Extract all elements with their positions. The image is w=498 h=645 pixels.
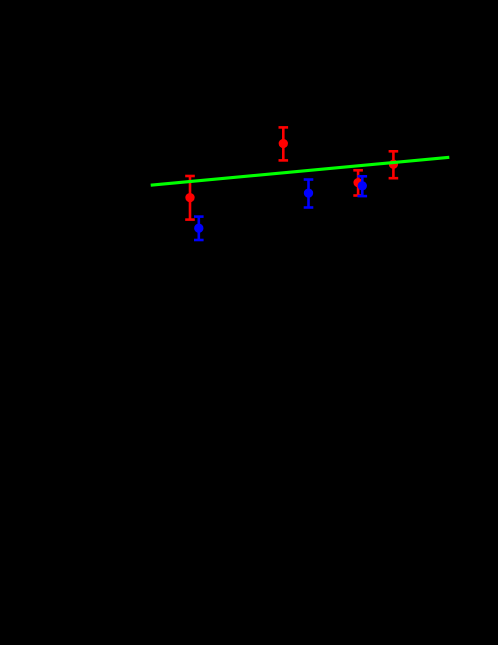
blue data point B1 error bar (194, 217, 204, 240)
red data point R4 error bar (389, 151, 399, 178)
blue data point B3 error bar (358, 176, 368, 196)
blue data point B3 marker (358, 181, 367, 190)
blue data point B1 marker (194, 224, 203, 233)
blue data point B2 error bar (304, 180, 314, 208)
red data point R1 error bar (185, 176, 195, 220)
blue data point B2 marker (304, 188, 313, 197)
red data point R2 error bar (279, 127, 289, 160)
green fitted line (151, 157, 450, 185)
red data point R3 error bar (353, 170, 363, 195)
red data point R1 marker (185, 193, 194, 202)
red data point R3 marker (353, 178, 362, 187)
red data point R4 marker (389, 160, 398, 169)
red data point R2 marker (279, 139, 288, 148)
